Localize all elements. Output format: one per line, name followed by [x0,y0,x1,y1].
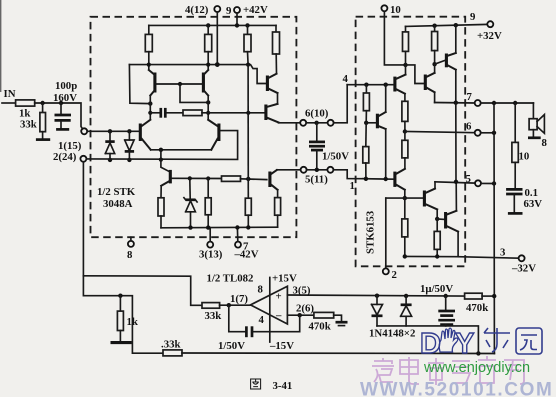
svg-text:D: D [420,328,441,360]
terminal 6b [328,120,334,126]
resistor R2f [432,26,438,64]
wire cap stub [60,103,62,113]
terminal 5b [327,167,333,173]
node pin5-chain [454,180,458,184]
svg-text:1k: 1k [127,316,138,328]
resistor R 1k-gnd [117,296,123,342]
svg-text:470k: 470k [309,321,331,333]
wire base-mid drop [180,84,208,102]
node rail-join [476,351,480,355]
node bus-pin9 [235,23,239,27]
node Td-emit [384,177,388,181]
wire Q2g coll riser [434,182,436,189]
wire tail drop [161,150,169,172]
diode D1 [105,131,114,160]
terminal pin7 -42V [235,242,241,248]
node pin1-fb [127,129,131,133]
wire bus2 bottom [405,255,458,257]
svg-text:+15V: +15V [272,273,297,285]
wire 470k to gnd [334,315,342,321]
node rail-pin4 [215,62,220,67]
resistor R-shunt 33k [40,113,46,132]
wire Q5 emitter drop [160,186,162,198]
node servo-D2 [404,294,408,298]
wire pin5 to box2 pin1 [333,170,363,179]
transistor Q2c [425,73,434,92]
transistor Q2e [395,169,405,190]
transistor Q2 [203,70,208,96]
wire input to corner, down to pin1 circle [35,103,83,129]
svg-text:3(5): 3(5) [293,285,311,297]
wire Q7-Q8 emitters [277,93,279,104]
terminal b2-9 [487,21,493,27]
wire t2 line [386,197,423,199]
node Rg-top [364,83,368,87]
svg-text:5: 5 [466,173,471,185]
svg-text:3: 3 [500,247,506,259]
resistor R2 [205,25,212,69]
wire x456 chain [455,103,457,182]
node base-zener [188,176,192,180]
svg-text:1/50V: 1/50V [218,340,245,352]
diode D3 [372,296,383,326]
transistor Q2d [377,112,385,129]
node em-L [148,101,152,105]
svg-text:.33k: .33k [161,339,181,351]
ground input33k [36,138,50,141]
wire Q2d emit drop [385,129,387,179]
node comp-L [148,111,152,115]
node Td-coll [384,83,388,87]
node comp-R [206,111,210,115]
svg-text:5(11): 5(11) [305,174,328,186]
svg-text:3(13): 3(13) [199,249,223,261]
resistor R3 [244,25,251,64]
transistor Q5 vas [161,170,170,186]
resistor R2k [402,198,408,256]
wire feedback drop to column [129,65,150,104]
wire Q2c coll stub [434,64,436,73]
terminal b2-10 [381,5,387,11]
wire pin6 mid [306,122,327,124]
svg-text:1/50V: 1/50V [322,151,349,163]
node bus-R3 [245,23,249,27]
wire pin1 line [87,130,139,132]
wire Q1-Q2 bases [156,83,202,85]
wire bias jog [406,65,424,84]
transistor Q3 input-L [140,120,150,150]
diode D4 [401,296,412,326]
resistor R2h [363,123,369,179]
svg-text:10: 10 [390,4,401,16]
wire Tb base link [435,60,445,64]
svg-text:4: 4 [343,73,349,85]
svg-text:+32V: +32V [477,30,502,42]
svg-text:–15V: –15V [269,340,294,352]
dashed box STK3048A [91,17,297,237]
node pin2-Da [108,158,112,162]
node out-fb [492,101,496,105]
wire rail y64.6 [129,65,265,84]
terminal pin2(24) [80,156,86,162]
wire inv line [287,314,314,316]
capacitor Cz 0.1/63V [506,189,522,212]
wire noninv line [287,295,464,296]
resistor R 470k-inv [314,312,334,318]
resistor R1 [145,25,152,69]
svg-text:2(6): 2(6) [296,303,314,315]
node bbus2-Rk [403,254,407,258]
node base-R6 [206,176,210,180]
wire pin7 out [481,102,534,104]
svg-text:6: 6 [466,121,472,133]
svg-text:4: 4 [259,314,265,326]
zener DZ1 [184,178,197,227]
node inv-fb [298,313,302,317]
node x434-64 [432,62,436,66]
wire pin8 stub [130,237,132,241]
transistor Q1 [149,70,155,96]
node Td-base [364,121,368,125]
node pin5-cap [315,168,319,172]
wire 33k stub [42,103,44,113]
node bus-R2 [206,23,210,27]
wire Q2d coll riser [385,85,387,112]
node fb-6 [492,131,496,135]
svg-text:470k: 470k [466,302,488,314]
diode D2 [125,131,134,160]
svg-text:9: 9 [470,11,476,23]
resistor R2l [434,219,440,257]
wire Q5 base line [172,177,222,179]
wire pin5b line [435,182,475,183]
wire pin7 stub [236,228,238,242]
transistor Q2g [424,189,437,210]
wire bus2 top [406,24,488,26]
ground 1k [111,341,132,344]
svg-text:63V: 63V [524,198,543,210]
wire pin5 line [277,169,301,171]
terminal 6a [300,120,306,126]
svg-text:8: 8 [127,249,133,261]
wire speaker drop [532,103,534,119]
svg-text:1/2 TL082: 1/2 TL082 [207,273,254,285]
terminal b2-6 [475,130,481,136]
wire bottom bus [161,226,278,229]
wire 33k to ground [42,132,44,139]
svg-text:160V: 160V [53,92,77,104]
node rail-R3 [246,63,250,67]
svg-text:2: 2 [392,269,397,281]
speaker LS1 [528,115,544,138]
svg-text:2(24): 2(24) [53,151,77,163]
svg-text:–42V: –42V [234,249,259,261]
node servo-D1 [375,294,379,298]
capacitor C-in 100p/160V [55,115,72,128]
watermark le glyph [484,328,510,352]
wire opamp out [220,304,251,306]
resistor R-in 1k [16,100,35,106]
wire -32V line [458,257,518,259]
node pin6-Ri [403,129,407,133]
node out-servo [227,303,231,307]
wire comp mid [167,112,183,114]
watermark jiadian glyphs [372,356,524,385]
wire pin6b line [405,132,475,133]
wire servo rail [377,326,478,354]
op-amp U1 TL082 [251,286,288,324]
node rail-R1 [147,63,151,67]
resistor R6 [205,179,211,228]
wire Q2a emit stub [404,94,406,102]
transistor Q7 casc-top [267,74,277,93]
svg-text:3048A: 3048A [103,198,133,210]
capacitor C 1u/50V [438,296,455,326]
wire pin6 to riser [334,85,348,123]
terminal pin3(13) [207,242,213,248]
wire pin10 drop [384,11,405,65]
watermark yuan glyph [516,328,542,354]
svg-text:1μ/50V: 1μ/50V [420,283,453,295]
terminal b2-7 [475,100,481,106]
transistor Q2b [446,53,455,70]
wire base line right [241,178,267,181]
resistor R2g [363,85,369,123]
wire feedback vertical [493,103,495,354]
ground cap100p [56,128,69,131]
node fb-470k [492,294,496,298]
terminal pin9 +42V [234,7,240,13]
svg-text:1N4148×2: 1N4148×2 [369,328,415,340]
wire pin3 stub [209,228,211,242]
wire Q2b emit drop [455,70,457,103]
wire pin2 long drop [82,162,84,276]
ground zobel [508,212,523,215]
node base-mid [178,82,182,86]
node em-R [206,100,210,104]
node fb-5 [492,181,496,185]
node y219 [435,217,439,221]
node y198 [403,196,407,200]
node Rh-bot [364,177,368,181]
wire pin5 out [481,182,494,184]
svg-text:IN: IN [4,88,16,100]
wire th base [437,218,444,220]
node bbus-z [188,225,192,229]
capacitor Ccomp [161,108,166,118]
capacitor C-servo 1/50V [229,305,300,337]
wire terminal2 riser [385,198,387,268]
node rail-R2 [206,63,210,67]
watermark hand [439,328,458,352]
wire Q2h coll riser [455,182,457,211]
terminal pin1(15) [81,128,87,134]
svg-text:3-41: 3-41 [273,380,293,392]
node bbus-p7 [235,225,239,229]
node out-zobel [513,101,517,105]
node input-b [59,101,63,105]
wire Q2a coll stub [405,65,407,75]
node tail [159,148,163,152]
wire x248 vertical [247,65,249,199]
transistor Q2h [446,211,459,232]
svg-text:–: – [275,310,282,322]
wire pin9 stub [236,13,238,25]
transistor Q2a [395,75,406,94]
svg-text:www.enjoydiy.cn: www.enjoydiy.cn [423,360,530,376]
wire Q2c emit drop [434,92,436,102]
svg-text:1: 1 [350,180,355,192]
svg-text:4(12): 4(12) [185,4,209,16]
svg-text:100p: 100p [55,80,77,92]
wire col-L vertical [149,96,151,120]
svg-text:33k: 33k [20,119,37,131]
bus +42V top [149,24,276,26]
svg-text:10: 10 [519,151,530,163]
node pin2-Db [127,158,131,162]
node x405-64 [403,63,407,67]
svg-text:7: 7 [467,91,473,103]
node pin7-Tb [454,101,458,105]
svg-text:8: 8 [258,284,264,296]
resistor R 470k-out [465,293,483,299]
caption glyph tu [251,379,261,389]
node pin2-tail [159,158,163,162]
svg-text:9: 9 [226,5,232,17]
wire comp right [202,112,265,114]
node bbus-R6 [206,225,210,229]
wire pin6 out [481,132,494,134]
terminal pin8 [128,241,134,247]
node base-x248 [246,177,250,181]
resistor R2j [402,132,408,169]
capacitor C2 1/50V [309,123,325,170]
terminal 5a [301,167,307,173]
node comp-x248 [246,111,250,115]
wire pin1-base line [363,178,393,181]
node input-a [40,101,44,105]
svg-text:1(7): 1(7) [230,293,248,305]
resistor R8 [158,198,164,228]
wire pin6 line [279,122,301,124]
svg-text:+42V: +42V [243,4,268,16]
resistor R 33k-fb [163,350,494,356]
node bbus-R7 [246,225,250,229]
wire comp line left [150,112,159,114]
resistor R2i [402,101,408,131]
wire Q2b coll riser [455,25,457,53]
svg-text:WWW.520101.COM: WWW.520101.COM [360,380,553,397]
resistor R 33k-in servo [202,303,220,309]
resistor R4 [273,25,280,73]
wire Q2d base [366,122,376,124]
resistor R7 [245,198,251,227]
node bus2-Tb [454,23,458,27]
wire pin2 line [86,131,237,160]
wire input [2,102,16,104]
dashed box STK6153 [356,17,466,267]
terminal b2-5 [475,180,481,186]
svg-text:6(10): 6(10) [305,108,329,120]
wire 470k-out link [482,295,494,297]
svg-text:STK6153: STK6153 [365,210,377,254]
resistor Rz 10 [512,103,518,188]
node lineB-1k [118,294,122,298]
wire pin5 mid [307,169,328,171]
ground inv [336,322,348,325]
wire line-B [83,276,163,353]
wire line-A [83,276,202,306]
transistor Q8 casc-bot [266,104,279,123]
node pin6-cap [314,121,318,125]
node bbus2-Rl [435,254,439,258]
wire pin10 line to base [347,84,393,86]
terminal b2-3 -32V [519,255,525,261]
wire col-R vertical [207,96,209,120]
node pin1-Da [108,129,112,133]
wire Q2e emit drop [404,190,406,198]
svg-text:Y: Y [455,328,474,360]
resistor Rcomp [183,110,202,116]
resistor R9 [275,190,281,227]
wire pin4 drop [216,12,218,65]
resistor R5h horizontal [222,176,241,181]
svg-text:1/2 STK: 1/2 STK [97,186,136,198]
terminal pin4(12) [214,6,220,12]
svg-text:8: 8 [542,137,548,149]
node bus2-Rf [432,24,436,28]
wire tail line [151,149,212,151]
wire Q2h emit drop [457,232,459,257]
watermark DIY [420,328,474,360]
svg-text:33k: 33k [205,310,222,322]
terminal b2-2 [383,268,389,274]
transistor Q4 input-R [208,120,219,150]
scan edge artifact [0,0,1,92]
transistor Q6 low [270,170,278,190]
resistor R2e [403,26,409,65]
wire supply vertical [269,278,271,343]
node servo-C [444,294,448,298]
wire Q2g emit drop [436,209,438,219]
wire pin7 line [435,102,475,105]
svg-text:–32V: –32V [511,263,536,275]
svg-text:+: + [276,291,282,303]
